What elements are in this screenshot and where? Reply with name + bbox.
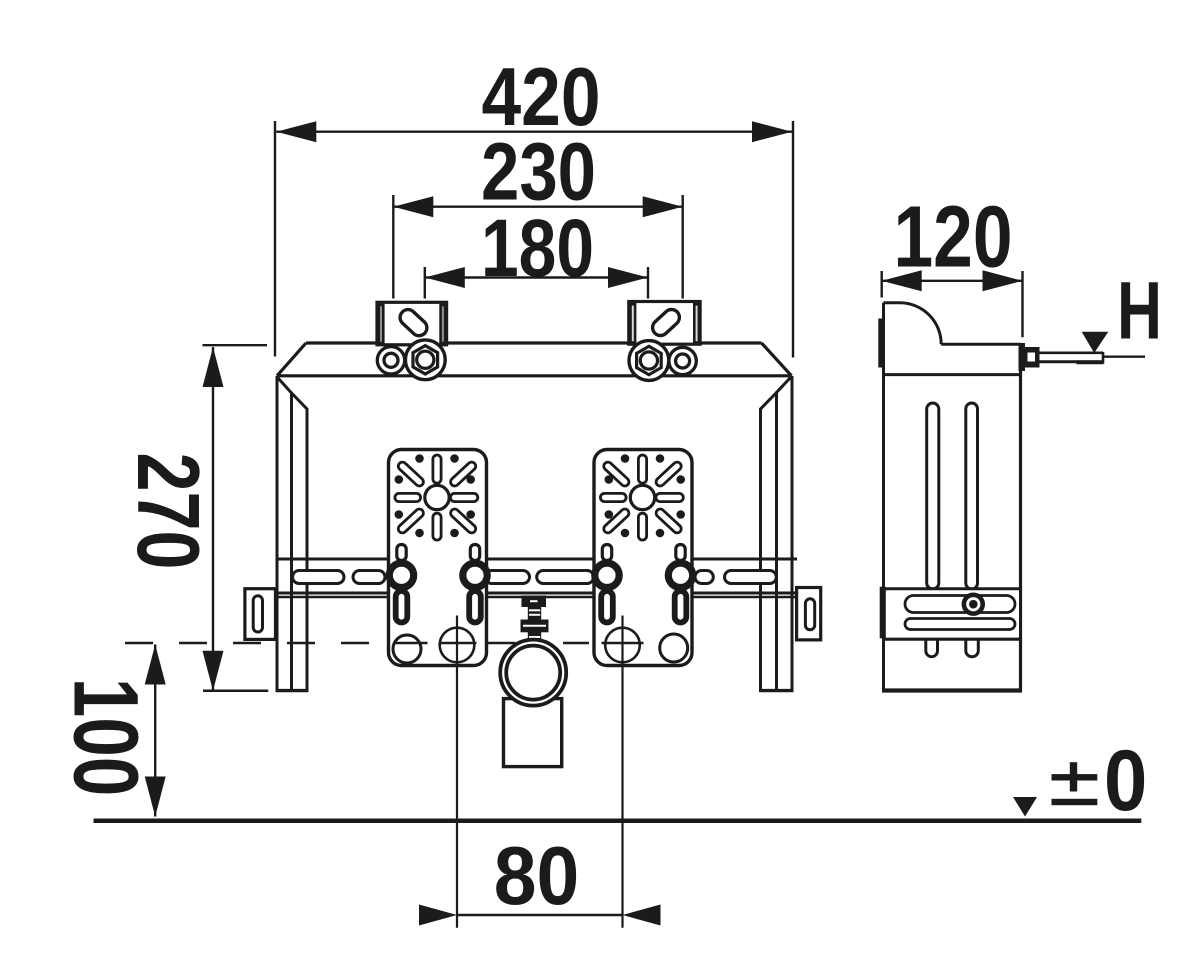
svg-text:120: 120 [894, 189, 1013, 286]
svg-text:0: 0 [1104, 733, 1147, 829]
svg-text:80: 80 [494, 830, 580, 922]
svg-text:100: 100 [54, 678, 156, 797]
svg-text:H: H [1117, 266, 1162, 357]
svg-text:180: 180 [481, 203, 594, 294]
svg-text:270: 270 [119, 453, 217, 570]
